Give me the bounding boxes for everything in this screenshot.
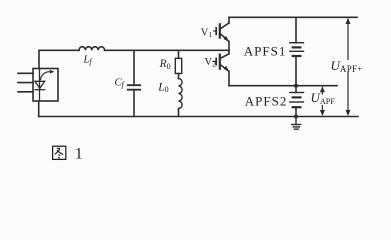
wire V2 emitter to mid rail [228, 71, 230, 85]
svg-text:1: 1 [75, 146, 83, 163]
wire bridge midpoint [228, 42, 230, 54]
transistor V2 (IGBT) [213, 54, 229, 72]
capacitor bank of APFS2 [290, 86, 304, 117]
svg-text:R0: R0 [159, 58, 171, 71]
3-phase input line a [18, 72, 33, 74]
wire top AC line from rectifier to bridge midpoint [39, 50, 79, 68]
svg-text:APFS1: APFS1 [244, 44, 287, 59]
wire R0 branch upper [178, 50, 180, 58]
dimension line U_APF [320, 86, 325, 116]
node bottom rail junction [294, 115, 298, 119]
3-phase input line c [18, 91, 33, 93]
wire rectifier bottom stub [38, 101, 40, 117]
inductor L0 [179, 79, 183, 109]
3-phase input line b [18, 82, 33, 84]
svg-text:Lf: Lf [83, 55, 94, 67]
svg-text:L0: L0 [157, 81, 168, 94]
wire Cf branch upper [133, 50, 135, 85]
svg-text:V2: V2 [205, 57, 217, 69]
svg-text:V1: V1 [201, 28, 213, 40]
wire mid DC rail [229, 85, 337, 87]
thyristor inside rectifier box [35, 69, 54, 102]
node mid rail junction [294, 84, 298, 88]
capacitor bank of APFS1 [290, 17, 304, 85]
ground [292, 117, 301, 130]
svg-text:UAPF+: UAPF+ [331, 58, 363, 74]
caption 图 1 (vector glyph + digit) [53, 146, 66, 159]
rectifier box [33, 69, 58, 102]
svg-text:Cf: Cf [115, 77, 126, 89]
wire L0 to bottom rail [178, 109, 180, 117]
wire bottom rail [39, 116, 358, 118]
wire top DC rail [229, 16, 357, 18]
capacitor Cf [128, 85, 140, 90]
wire top line after Lf [105, 49, 229, 51]
resistor R0 [175, 58, 181, 73]
svg-text:APFS2: APFS2 [245, 93, 288, 108]
wire R0 to L0 [178, 74, 180, 79]
wire Cf branch lower [133, 90, 135, 117]
dimension line U_APF+ [346, 18, 351, 116]
inductor Lf [79, 47, 105, 51]
transistor V1 (IGBT) [214, 17, 229, 41]
